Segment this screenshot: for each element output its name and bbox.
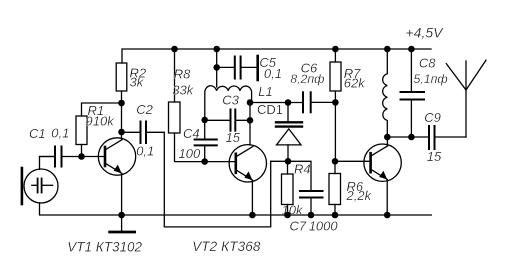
wire VT3 collector	[386, 137, 388, 146]
capacitor C4	[179, 120, 217, 162]
node VT2 emitter ground junction	[249, 212, 256, 219]
svg-text:100: 100	[179, 146, 201, 161]
node CD1 bottom / R4 junction	[285, 158, 292, 165]
resistor R1	[76, 103, 115, 145]
svg-text:R8: R8	[174, 67, 191, 82]
wire L1 tap to rail and C5	[216, 49, 218, 87]
wire mic top lead	[40, 157, 56, 170]
node C7 bottom ground junction	[308, 212, 315, 219]
svg-text:910k: 910k	[86, 114, 116, 129]
transistor VT3	[364, 144, 401, 181]
node collector VT1 junction	[118, 129, 125, 136]
capacitor C2	[122, 102, 155, 159]
wire VT2 emitter	[251, 180, 253, 215]
capacitor C9	[424, 110, 466, 164]
wire C2 to modulation line	[146, 132, 271, 227]
svg-text:15: 15	[427, 149, 442, 164]
capacitor C5	[217, 55, 282, 81]
node L1 tap top junction	[213, 46, 220, 53]
svg-text:2,2k: 2,2k	[346, 188, 373, 203]
svg-text:C1: C1	[29, 126, 46, 141]
svg-text:5,1пф: 5,1пф	[414, 72, 448, 86]
svg-text:62k: 62k	[344, 75, 366, 90]
svg-text:33k: 33k	[172, 82, 194, 97]
wire R8 bottom to VT2 base	[175, 133, 205, 162]
svg-text:L1: L1	[258, 84, 272, 99]
svg-text:15: 15	[226, 130, 241, 145]
antenna WA1	[446, 60, 486, 137]
svg-text:VT2 КТ368: VT2 КТ368	[192, 239, 261, 254]
wire R1 bottom	[81, 145, 83, 157]
svg-text:C7: C7	[290, 218, 307, 233]
svg-text:0,1: 0,1	[136, 144, 154, 159]
node R8 top junction	[171, 46, 178, 53]
wire R2 bottom to collector node	[121, 91, 123, 140]
node L2 top junction	[384, 46, 391, 53]
resistor R2	[116, 63, 147, 91]
wire VT2 base	[205, 161, 236, 163]
wire collector node to C9	[387, 136, 429, 138]
wire VT1 emitter	[121, 173, 123, 215]
node C3 left junction	[201, 117, 208, 124]
resistor R4	[282, 161, 311, 217]
svg-text:C3: C3	[222, 92, 239, 107]
resistor R7	[330, 49, 366, 161]
transistor VT2	[229, 145, 266, 182]
svg-text:C9: C9	[424, 110, 441, 125]
wire base VT1	[82, 156, 106, 158]
node VT3 emitter ground junction	[384, 212, 391, 219]
capacitor C6	[290, 60, 335, 112]
svg-text:C2: C2	[136, 102, 153, 117]
svg-text:3k: 3k	[130, 75, 145, 90]
node C8 bottom junction	[408, 134, 415, 141]
capacitor C3	[205, 92, 250, 145]
microphone BM1	[22, 168, 58, 204]
node L1 tap / C5 junction	[213, 64, 220, 71]
svg-text:1000: 1000	[309, 219, 339, 234]
wire top supply rail	[122, 49, 431, 63]
svg-text:+4,5V: +4,5V	[406, 25, 445, 41]
wire mic bottom lead to ground rail	[40, 203, 432, 215]
svg-text:C8: C8	[419, 56, 436, 71]
node base VT1 junction	[78, 153, 85, 160]
capacitor C1	[29, 126, 82, 167]
wire VT3 base	[335, 160, 371, 162]
wire C6 left	[250, 102, 303, 104]
node R4 bottom ground junction	[284, 212, 291, 219]
svg-text:0,1: 0,1	[51, 126, 69, 141]
inductor L2	[383, 49, 388, 137]
wire L1 right leg down to VT2 collector	[249, 103, 251, 146]
svg-text:8,2пф: 8,2пф	[290, 72, 324, 86]
svg-text:CD1: CD1	[257, 102, 283, 117]
svg-text:C4: C4	[183, 126, 200, 141]
resistor R8	[169, 49, 195, 133]
node CD1 top junction	[285, 99, 292, 106]
wire R1 branch	[82, 103, 122, 116]
svg-text:R4: R4	[294, 161, 311, 176]
node C6 right / R7 bottom junction	[332, 99, 339, 106]
wire VT3 emitter	[386, 180, 388, 216]
wire CD1 node to C7	[271, 161, 311, 191]
node VT2 base junction	[201, 158, 208, 165]
node L1 right / C6 junction	[247, 99, 254, 106]
node R7 top junction	[332, 46, 339, 53]
ground	[110, 215, 135, 232]
node R6 bottom ground junction	[332, 212, 339, 219]
varicap CD1	[257, 102, 302, 161]
node VT1 emitter ground junction	[118, 212, 125, 219]
node R6 top / VT3 base junction	[332, 158, 339, 165]
svg-text:VT1 КТ3102: VT1 КТ3102	[67, 239, 142, 254]
resistor R6	[329, 161, 373, 215]
capacitor C8	[401, 49, 448, 137]
transistor VT1	[98, 138, 135, 175]
node C8 top junction	[408, 46, 415, 53]
capacitor C7	[290, 191, 339, 234]
node L2 bottom / VT3 collector junction	[384, 134, 391, 141]
node C3 right junction	[247, 117, 254, 124]
node R2/R1 junction	[118, 100, 125, 107]
inductor L1	[205, 86, 252, 120]
svg-text:0,1: 0,1	[264, 66, 282, 81]
